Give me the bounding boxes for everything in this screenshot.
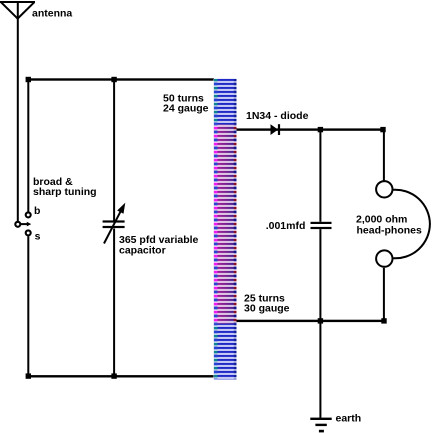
antenna <box>0 1 35 19</box>
headphones HP1 headband arc <box>393 190 430 259</box>
wire tuning branch upper (vertical) <box>113 79 115 221</box>
node junction dot top bus left <box>26 77 31 82</box>
inductor L1 coil lower blue section <box>214 324 237 380</box>
svg-text:capacitor: capacitor <box>119 245 166 257</box>
node junction dot top bus middle <box>111 77 116 82</box>
wire switch s contact drop <box>27 236 29 377</box>
capacitor C1 365pfd variable <box>103 203 126 244</box>
svg-text:head-phones: head-phones <box>357 225 422 237</box>
wire coil tap to headphones (horizontal) <box>237 320 385 322</box>
svg-text:antenna: antenna <box>32 8 72 20</box>
switch SW1 pole <box>15 222 20 227</box>
wire tuning branch lower (vertical) <box>113 229 115 378</box>
wire C2 branch upper (vertical) <box>319 129 321 222</box>
node corner dot bottom right <box>381 318 386 323</box>
wire switch b contact riser <box>27 79 29 212</box>
wire antenna lead-in (vertical) <box>17 2 19 221</box>
svg-text:earth: earth <box>336 413 362 425</box>
wire headphone bottom lead (vertical) <box>383 268 385 321</box>
headphones HP1 top earpiece <box>376 181 392 197</box>
svg-text:sharp tuning: sharp tuning <box>33 186 97 198</box>
node junction dot bottom bus left <box>26 373 31 378</box>
node junction dot bottom bus middle <box>111 373 116 378</box>
svg-text:.001mfd: .001mfd <box>266 220 306 232</box>
svg-text:s: s <box>35 230 41 242</box>
switch SW1 contact s <box>26 230 31 235</box>
ground earth symbol <box>310 418 331 433</box>
wire detector branch (horizontal) <box>237 128 385 130</box>
switch SW1 contact b <box>26 212 31 217</box>
wire C2 branch lower to ground (vertical) <box>319 229 321 418</box>
node junction dot tap wire / ground branch <box>318 318 323 323</box>
wire bottom bus <box>27 375 214 377</box>
wire top bus <box>27 78 214 80</box>
node corner dot top right <box>380 127 385 132</box>
svg-text:30 gauge: 30 gauge <box>244 303 290 315</box>
svg-text:1N34 - diode: 1N34 - diode <box>246 110 309 122</box>
node junction dot diode wire / C2 <box>318 127 323 132</box>
wire headphone top lead (vertical) <box>383 129 385 181</box>
capacitor C2 .001mfd <box>311 222 332 229</box>
inductor L1 coil upper blue section <box>214 79 237 125</box>
switch SW1 arm arrow <box>21 222 31 227</box>
headphones HP1 bottom earpiece <box>376 250 392 266</box>
svg-text:b: b <box>34 205 40 217</box>
svg-text:24 gauge: 24 gauge <box>163 103 209 115</box>
diode D1 1N34 <box>271 124 281 135</box>
inductor L1 coil middle purple section <box>214 125 237 324</box>
